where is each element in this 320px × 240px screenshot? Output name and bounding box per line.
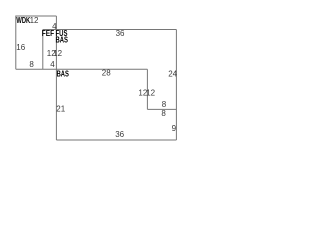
svg-text:8: 8 <box>161 109 166 118</box>
interior wall horizontal (8) <box>147 108 176 110</box>
wood deck WDK outline <box>16 16 57 69</box>
main block right wall (24 + 9) <box>175 30 177 141</box>
main block bottom wall (36) <box>56 139 176 141</box>
svg-text:8: 8 <box>29 60 34 69</box>
svg-text:21: 21 <box>56 105 65 114</box>
interior wall BAS top (8 + 28) <box>16 68 148 70</box>
svg-text:16: 16 <box>16 43 25 52</box>
svg-text:FEF: FEF <box>42 29 54 38</box>
svg-text:BAS: BAS <box>56 35 69 44</box>
enclosed porch FEF left wall <box>42 30 44 70</box>
svg-text:12: 12 <box>146 88 155 97</box>
svg-text:WDK: WDK <box>16 16 30 25</box>
svg-text:12: 12 <box>30 16 39 25</box>
svg-text:4: 4 <box>50 60 55 69</box>
svg-text:8: 8 <box>162 100 167 109</box>
svg-text:36: 36 <box>115 130 124 139</box>
svg-text:9: 9 <box>172 124 177 133</box>
svg-text:12: 12 <box>53 49 62 58</box>
svg-text:24: 24 <box>168 69 177 78</box>
interior wall vertical (12) <box>146 69 148 109</box>
svg-text:BAS: BAS <box>57 69 70 78</box>
svg-text:28: 28 <box>102 69 111 78</box>
main block left wall <box>55 16 57 140</box>
main block top wall (36) <box>43 29 177 31</box>
svg-text:36: 36 <box>116 29 125 38</box>
